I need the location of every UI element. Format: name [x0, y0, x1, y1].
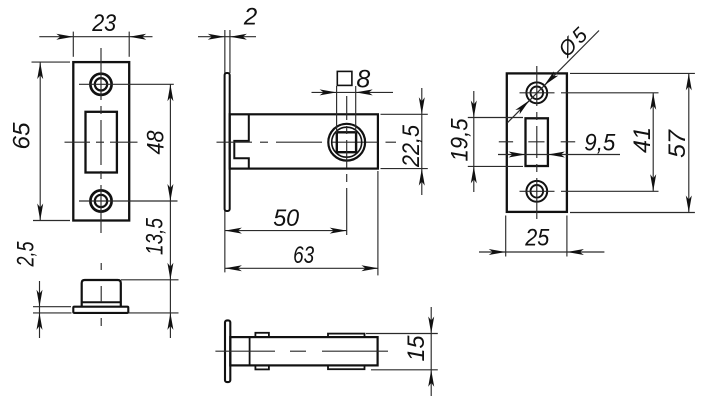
svg-text:23: 23 — [91, 10, 116, 37]
dim 8 square symbol — [337, 71, 352, 85]
dim 19,5 line — [473, 91, 475, 192]
faceplate screw hole top — [526, 82, 547, 103]
svg-text:41: 41 — [629, 127, 656, 153]
bottom view: left top tab — [255, 333, 269, 337]
dim 48 arrows — [167, 84, 173, 201]
dim 2 arrows — [208, 34, 247, 40]
latch bolt base plate — [73, 307, 128, 313]
dim 50 arrows — [225, 228, 347, 234]
spindle vertical centerline — [346, 96, 348, 235]
faceplate front view outline — [507, 73, 567, 212]
dim 8 arrows — [320, 89, 373, 95]
bottom view: right top tab — [328, 334, 365, 338]
dim 15 arrows — [428, 317, 434, 387]
dim 23 line — [39, 36, 152, 38]
dim 13,5 extension lines — [121, 280, 179, 313]
dim 8 line — [312, 91, 394, 93]
strike plate horizontal centerline — [65, 141, 138, 143]
dim 63 line — [225, 267, 379, 269]
dim 25 extension lines — [506, 216, 567, 257]
latch side view: bolt notch — [234, 114, 249, 168]
faceplate latch hole rect — [526, 118, 548, 166]
strike plate screw hole top — [90, 74, 111, 95]
strike plate outline (front view) — [73, 62, 129, 220]
bottom view: right bottom tab — [328, 365, 365, 369]
svg-text:Ø5: Ø5 — [554, 22, 594, 62]
bottom view: left bottom tab — [255, 365, 269, 369]
svg-text:9,5: 9,5 — [584, 130, 616, 157]
dim 25 arrows — [489, 249, 584, 255]
svg-text:15: 15 — [403, 335, 430, 362]
dim 23 arrows — [56, 34, 146, 40]
bottom view: case tube — [230, 337, 377, 365]
dim 2,5 extension lines — [33, 307, 72, 313]
dim 63 right extension line — [377, 171, 379, 275]
dim 22,5 arrows — [419, 97, 425, 185]
dim 50 line — [225, 230, 347, 232]
svg-text:19,5: 19,5 — [447, 118, 474, 162]
svg-text:50: 50 — [273, 205, 300, 232]
bottom view: tube joint line — [249, 337, 251, 365]
strike plate vertical centerline — [100, 48, 102, 233]
faceplate screw hole bottom — [526, 181, 547, 202]
dim 57 line — [688, 73, 690, 212]
dim 22,5 extension lines — [381, 114, 428, 168]
faceplate vertical centerline — [536, 66, 538, 219]
svg-text:2: 2 — [243, 4, 257, 31]
svg-text:57: 57 — [664, 128, 691, 158]
dim 15 line — [430, 307, 432, 396]
dim 19,5 extension lines — [468, 118, 523, 167]
dim 8 extension lines — [337, 86, 356, 133]
spindle hub inner circle — [332, 127, 362, 157]
dim 19,5 arrows — [471, 101, 477, 184]
dim 41 line — [652, 93, 654, 192]
latch bolt collar line — [82, 301, 121, 303]
svg-text:8: 8 — [356, 65, 370, 93]
dim 65 line — [39, 62, 41, 220]
screw hole top cross / dim41 top extension — [520, 92, 659, 94]
diameter 5 leader line — [507, 31, 599, 123]
strike plate screw hole bottom — [90, 190, 111, 211]
screw hole bottom cross line / dim48 bottom extension — [79, 200, 178, 202]
latch side view: faceplate extension lines for dim 2 — [225, 30, 230, 272]
dim 57 extension lines — [570, 73, 695, 212]
dim 22,5 line — [421, 88, 423, 195]
strike plate latch cutout — [86, 112, 117, 173]
dim 25 line — [479, 251, 604, 253]
svg-text:63: 63 — [293, 242, 315, 269]
svg-text:65: 65 — [9, 122, 36, 150]
dim 65 extension lines — [32, 62, 71, 220]
dim 23 extension lines — [73, 32, 129, 57]
dim 2,5 line — [39, 281, 41, 338]
dim 48 / 13.5 shared dimension line — [169, 84, 171, 338]
dim 9,5 arrows — [509, 152, 565, 158]
dim 65 arrows — [37, 62, 43, 220]
screw hole top cross line / dim48 top extension — [79, 83, 174, 85]
screw hole bottom cross / dim41 bottom extension — [520, 190, 659, 192]
dim 13,5 arrows — [167, 263, 173, 330]
dim 2 line — [198, 36, 256, 38]
bottom view horizontal centerline — [215, 350, 388, 352]
dim 9,5 line — [498, 154, 620, 156]
latch bolt aux view: bolt body — [82, 280, 121, 307]
latch side view: faceplate — [225, 73, 230, 211]
faceplate horizontal centerline — [499, 141, 575, 143]
svg-text:22,5: 22,5 — [398, 124, 425, 167]
latch side view horizontal centerline — [217, 141, 397, 143]
dim 57 arrows — [686, 73, 692, 212]
dim 15 extension lines — [366, 334, 438, 370]
dim 63 arrows — [225, 265, 379, 271]
latch side view: case body — [230, 114, 378, 168]
dim 41 arrows — [650, 93, 656, 192]
latch bolt vertical centerline — [100, 263, 102, 326]
svg-text:13,5: 13,5 — [142, 217, 169, 255]
dim 2,5 arrows — [37, 290, 43, 330]
svg-text:48: 48 — [143, 130, 170, 155]
svg-text:2,5: 2,5 — [13, 241, 40, 267]
svg-text:25: 25 — [524, 225, 549, 252]
spindle square hole — [337, 132, 356, 152]
bottom view: faceplate bar — [225, 320, 230, 382]
spindle hub outer circle — [328, 124, 365, 161]
diameter 5 leader arrows — [515, 71, 558, 114]
